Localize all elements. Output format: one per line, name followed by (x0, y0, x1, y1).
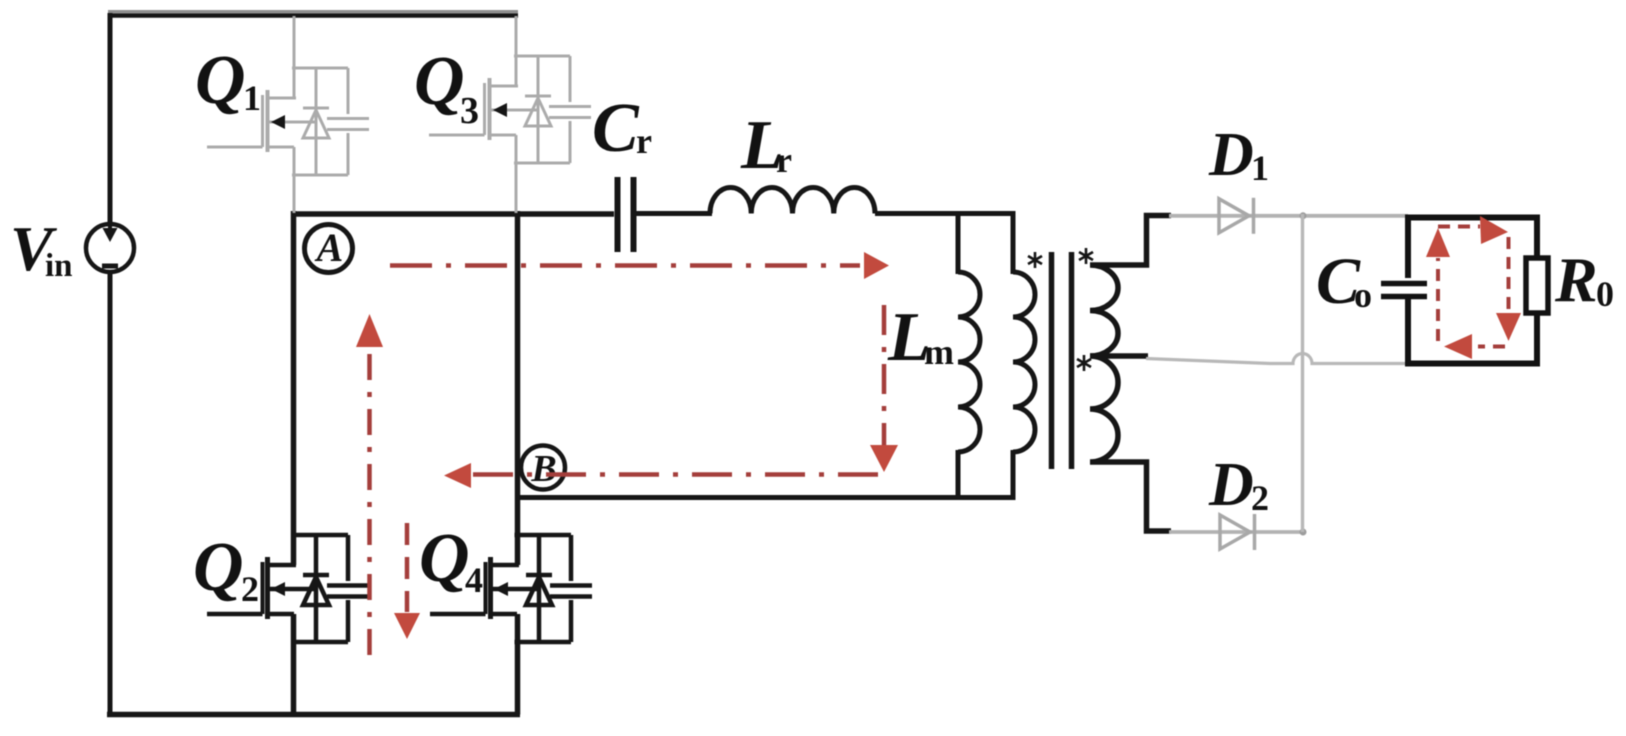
node A (305, 225, 353, 273)
svg-text:1: 1 (243, 78, 261, 118)
label Q1 (195, 42, 261, 119)
transistor Q4 (black MOSFET with body diode and capacitor) (430, 535, 592, 642)
node B (521, 446, 565, 491)
output loop box (1408, 218, 1537, 364)
wire bottom rail (107, 712, 520, 718)
inductor Lr (710, 187, 875, 213)
polarity dot (asterisk) primary (1028, 252, 1042, 268)
diode D1 wire (1169, 214, 1408, 218)
svg-text:Q: Q (195, 42, 246, 119)
svg-text:r: r (636, 121, 652, 161)
label Co (1316, 245, 1372, 318)
red dashed current path: transformer bottom back to node B (471, 472, 878, 477)
svg-text:4: 4 (465, 560, 483, 600)
diode D2 (1220, 514, 1255, 550)
svg-text:m: m (924, 332, 954, 372)
polarity dot (asterisk) secondary top (1079, 248, 1093, 264)
transformer core (1052, 252, 1072, 469)
junction dot D1 output (1300, 212, 1307, 219)
svg-text:B: B (530, 448, 556, 490)
capacitor Cr (618, 177, 634, 252)
bridge box left edge (node A leg) (291, 211, 297, 715)
diode D2 wire (1169, 530, 1304, 534)
transformer primary winding (1013, 211, 1035, 500)
red dashed output circulation loop (1426, 216, 1521, 359)
label R0 (1554, 244, 1614, 315)
label Q2 (193, 529, 259, 609)
svg-text:2: 2 (241, 569, 259, 609)
junction dot D2 output (1300, 529, 1307, 536)
red dashed current path: down through Lm (882, 305, 887, 445)
wire Lr to transformer (875, 211, 1016, 216)
svg-text:r: r (776, 140, 792, 180)
svg-text:D: D (1208, 121, 1254, 189)
wire bridge output top (node A to Cr) (291, 211, 614, 217)
svg-text:Q: Q (419, 520, 470, 597)
svg-text:C: C (592, 90, 640, 167)
svg-text:Q: Q (414, 43, 465, 120)
resistor R0 (1526, 258, 1548, 313)
label Lr (740, 107, 792, 184)
polarity dot (asterisk) secondary bottom (1077, 355, 1091, 371)
svg-text:Q: Q (193, 529, 244, 606)
diode D1 (1219, 198, 1254, 234)
svg-text:1: 1 (1251, 148, 1269, 188)
svg-text:3: 3 (460, 90, 479, 132)
label Cr (592, 90, 652, 167)
transistor Q3 (gray MOSFET with body diode and capacitor) (429, 16, 591, 213)
wire top rail (108, 12, 518, 16)
label Lm (887, 299, 954, 376)
bridge box right edge (node B leg) (515, 211, 521, 715)
red dashed current path: node A to transformer (top) (356, 252, 898, 658)
svg-text:0: 0 (1596, 274, 1614, 314)
label Vin (10, 213, 73, 284)
label D2 (1208, 451, 1269, 519)
inductor Lm (958, 211, 980, 500)
svg-text:in: in (45, 248, 73, 284)
svg-text:2: 2 (1251, 478, 1269, 518)
svg-text:o: o (1354, 275, 1372, 315)
wire center tap with hop (1146, 354, 1408, 364)
wire rectifier vertical (1301, 214, 1304, 532)
red dashed current path: down through Q4 leg (405, 523, 410, 612)
wire transformer bottom to bridge (517, 495, 1016, 500)
wire Vin vertical (108, 13, 113, 715)
voltage source Vin (86, 224, 134, 272)
red dashed current path: up through Q2 leg (356, 314, 383, 347)
wire Cr to Lr (636, 211, 712, 216)
svg-text:R: R (1554, 244, 1598, 315)
transistor Q2 (black MOSFET with body diode and capacitor) (207, 535, 369, 642)
transistor Q1 (gray MOSFET with body diode and capacitor) (207, 16, 369, 213)
label D1 (1208, 121, 1269, 189)
label Q4 (419, 520, 483, 600)
transformer secondary winding (center-tapped) (1090, 216, 1171, 532)
svg-text:D: D (1208, 451, 1254, 519)
capacitor Co (1381, 284, 1427, 297)
label Q3 (414, 43, 479, 132)
svg-text:A: A (314, 225, 344, 270)
